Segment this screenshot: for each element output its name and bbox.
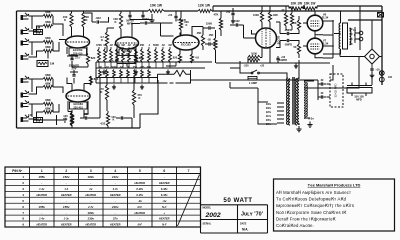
svg-text:K: K (101, 38, 103, 42)
svg-text:-3v: -3v (138, 199, 143, 203)
svg-text:68K: 68K (45, 107, 51, 111)
svg-text:3: 3 (22, 187, 24, 191)
potentiometer P15 500K (113, 70, 116, 78)
svg-text:500K: 500K (153, 44, 159, 47)
wire psu misc (303, 80, 330, 100)
potentiometer P5 1M (122, 49, 125, 62)
switch SW1 mains (247, 70, 263, 73)
svg-text:12K 1W: 12K 1W (198, 4, 211, 8)
potentiometer P16 &#183;02 (120, 70, 123, 78)
transformer T2 primary (287, 78, 288, 124)
wire P2 tap (104, 62, 106, 68)
wire P1 tap (98, 62, 100, 68)
wire R42 (215, 30, 217, 63)
svg-text:+16: +16 (375, 69, 380, 72)
resistor R11 12K 1W (198, 9, 212, 12)
svg-text:150K: 150K (206, 22, 212, 26)
resistor R20 820 cathode (89, 76, 92, 85)
svg-text:K: K (139, 96, 141, 100)
titleblock frame (201, 167, 268, 233)
svg-text:-: - (139, 175, 140, 179)
wire R44 (291, 6, 293, 30)
svg-text:1M: 1M (126, 66, 129, 69)
resistor R39 4.7K (248, 59, 260, 62)
capacitor C19 32 (321, 82, 322, 85)
svg-text:CоԞтаіԞеd AЬоӭе.: CоԞтаіԞеd AЬоӭе. (276, 223, 314, 228)
svg-text:4.8: 4.8 (195, 56, 199, 60)
svg-text:68K: 68K (45, 45, 51, 49)
capacitor C10 .001 (85, 116, 86, 119)
jack J7 input (21, 103, 24, 108)
svg-text:100K: 100K (253, 13, 259, 17)
svg-text:8: 8 (22, 217, 24, 221)
svg-text:15K: 15K (209, 33, 214, 37)
svg-text:1M: 1M (28, 113, 33, 117)
svg-text:MODEL: MODEL (203, 207, 212, 210)
wire V1 grid (59, 39, 66, 41)
jack J3 input (21, 41, 24, 46)
svg-text:155v: 155v (63, 205, 70, 209)
svg-text:·022: ·022 (143, 17, 149, 21)
resistor R8 100K anode (82, 13, 85, 27)
wire ch2 grid joins (34, 79, 64, 120)
svg-text:HEATER: HEATER (37, 223, 48, 227)
wire R34 (133, 77, 135, 118)
tube V3 ECC83 (116, 37, 139, 49)
svg-text:6·3v: 6·3v (308, 117, 314, 121)
svg-text:4: 4 (22, 193, 24, 197)
svg-text:-: - (41, 181, 42, 185)
svg-text:3·7v: 3·7v (113, 187, 119, 191)
svg-text:1·3v: 1·3v (64, 217, 70, 221)
capacitor C4 25MFD (115, 59, 118, 60)
svg-text:-: - (164, 175, 165, 179)
wire controls rail 1 lower (96, 67, 205, 69)
wire ch2 jack bus (29, 79, 44, 119)
capacitor C15 0.1MFD (287, 32, 288, 35)
resistor R28 45K (201, 35, 204, 46)
transformer T1 primary winding (339, 23, 340, 49)
transformer T2 heater winding (304, 82, 305, 118)
svg-text:1 AMP: 1 AMP (249, 81, 257, 85)
resistor R44 10K (290, 13, 293, 26)
svg-text:10K 1W 10K 1W: 10K 1W 10K 1W (291, 2, 316, 6)
resistor R38 10K tail (248, 55, 260, 58)
svg-text:-: - (41, 199, 42, 203)
lamp LP2 pilot (379, 77, 384, 82)
wire T1 sec taps (350, 29, 353, 44)
wire V4 pins (180, 33, 192, 55)
svg-text:470K: 470K (96, 44, 102, 47)
capacitor C5 50+50MFD (130, 11, 143, 15)
potentiometer P2 1M (104, 49, 107, 62)
capacitor C12 0.022 (236, 23, 237, 26)
resistor R19 1M (34, 118, 43, 123)
svg-text:N·F: N·F (162, 223, 167, 227)
svg-text:·02: ·02 (161, 44, 165, 47)
wire P3 tap (110, 62, 112, 68)
wire P14 tap (106, 78, 108, 84)
svg-text:-: - (66, 181, 67, 185)
svg-text:HEATER: HEATER (61, 193, 72, 197)
wire V2 bottom nets (68, 110, 88, 128)
svg-text:10K 1W: 10K 1W (150, 4, 163, 8)
wire ch2 ctrl wires (43, 115, 67, 125)
svg-text:-: - (66, 199, 67, 203)
svg-text:Tо CоԞтіԞʊоʊѕ DеӭеɬормеԞт AԞd: Tо CоԞтіԞʊоʊѕ DеӭеɬормеԞт AԞd (276, 197, 347, 202)
capacitor C8 0.1 (209, 26, 210, 29)
capacitor C11 .02 (121, 116, 122, 119)
wire tone node (153, 23, 174, 36)
wire R25 (180, 11, 182, 35)
svg-text:·1: ·1 (148, 44, 151, 47)
svg-text:1M: 1M (36, 25, 41, 29)
ground GND1 (149, 17, 154, 23)
svg-text:210v: 210v (266, 116, 272, 118)
wire P16 tap (120, 78, 122, 84)
svg-text:1M: 1M (98, 66, 101, 69)
wire T2 taps (277, 103, 284, 123)
wire rail B drop (212, 6, 214, 11)
svg-text:-: - (90, 199, 91, 203)
resistor R35 47K (219, 18, 222, 30)
svg-text:N/A.: N/A. (242, 228, 248, 232)
svg-text:82K: 82K (273, 13, 278, 17)
svg-text:-: - (66, 211, 67, 215)
tube V7 EL34 (307, 38, 323, 54)
svg-text:9: 9 (22, 223, 24, 227)
capacitor C14 50MFD (276, 58, 279, 59)
wire down run B (166, 62, 176, 66)
svg-text:152v: 152v (63, 175, 70, 179)
resistor R9 820 cathode (86, 54, 89, 64)
svg-text:+25: +25 (260, 64, 265, 68)
potentiometer P10 500K (155, 49, 158, 62)
jack J9 speaker (359, 31, 363, 35)
svg-text:1M: 1M (50, 62, 55, 66)
wire ch2 out2 (108, 111, 132, 128)
label V3 (119, 49, 136, 56)
wire controls rail 1 upper (96, 61, 212, 63)
wire V1 anode out (84, 13, 109, 22)
svg-text:68K: 68K (45, 82, 51, 86)
svg-text:+: + (163, 211, 165, 215)
svg-text:32: 32 (321, 91, 324, 95)
ground GND5 (112, 85, 116, 90)
label V2 (70, 102, 88, 109)
resistor R1 68K (43, 14, 53, 17)
wire P9 tap (148, 62, 150, 68)
svg-text:100: 100 (388, 76, 393, 79)
svg-text:16MFD: 16MFD (279, 59, 287, 62)
wire P13 tap (99, 78, 101, 84)
svg-text:·02: ·02 (109, 44, 113, 47)
svg-text:-: - (41, 211, 42, 215)
capacitor C16 0.1MFD (287, 39, 288, 42)
svg-text:230v: 230v (266, 108, 272, 110)
svg-text:DATE: DATE (240, 223, 247, 226)
label V1 (69, 48, 87, 55)
svg-text:6·35v: 6·35v (161, 193, 168, 197)
wire V1 pins (67, 30, 87, 55)
wire P15 tap (113, 78, 115, 84)
capacitor C21 16MFD (370, 69, 373, 70)
svg-text:2: 2 (65, 169, 67, 173)
svg-text:32×32 MFD: 32×32 MFD (334, 84, 338, 98)
svg-text:·005: ·005 (140, 66, 145, 69)
capacitor C2 cathode bypass (67, 54, 78, 58)
potentiometer P12 1M (169, 49, 172, 62)
wire speaker wires (355, 27, 359, 43)
tube V5 ECC83 phase inverter (256, 28, 277, 48)
wire T2 to bridge (304, 57, 359, 89)
resistor R25 220K grid (179, 18, 182, 30)
svg-text:Aɬɬ Mагѕһаɬɬ Aмрɬіфіегѕ Aге Sʊ: Aɬɬ Mагѕһаɬɬ Aмрɬіфіегѕ Aге SʊЬѕеcт (276, 190, 351, 195)
wire V3 bottom (117, 64, 136, 67)
resistor R21 100K tail (70, 112, 73, 125)
ground GND8 (294, 64, 298, 69)
svg-text:K: K (186, 23, 188, 27)
wire C15 net (276, 22, 280, 48)
wire ch1 jack bus (29, 16, 44, 57)
svg-text:Tҽє Mагѕһаɬɬ Pгоdʊcɪѕ LTD: Tҽє Mагѕһаɬɬ Pгоdʊcɪѕ LTD (308, 183, 361, 188)
speaker zigzag network (158, 70, 192, 83)
wire R35 (220, 11, 222, 36)
wire ch2 out (72, 77, 100, 129)
capacitor C20 32 (321, 95, 322, 98)
svg-text:7: 7 (22, 211, 24, 215)
wire P20 tap (148, 78, 150, 84)
resistor R3 1M (34, 30, 43, 35)
resistor R13 10K 1W (303, 7, 317, 10)
resistor R5 68K (43, 49, 53, 52)
wire P8 tap (141, 62, 143, 68)
potentiometer P13 1M (99, 70, 102, 78)
svg-text:HEATER: HEATER (159, 181, 170, 185)
svg-text:-: - (115, 181, 116, 185)
capacitor C6 16MFD (174, 16, 177, 17)
wire P11 tap (162, 62, 164, 68)
svg-text:HEATER: HEATER (135, 181, 146, 185)
wire tail rail (216, 62, 330, 64)
svg-text:HEATER: HEATER (61, 223, 72, 227)
wire NFB run (191, 79, 319, 81)
wire controls rail 2 lower (96, 82, 158, 84)
wire bottom rail (17, 127, 141, 129)
svg-text:1M: 1M (103, 44, 106, 47)
resistor R16 1M (37, 61, 48, 67)
capacitor C18 can 32+32 (330, 74, 343, 107)
svg-text:250V: 250V (75, 57, 81, 59)
wire right border (381, 6, 383, 85)
svg-text:68K: 68K (45, 36, 51, 40)
svg-text:K: K (113, 118, 115, 122)
wire V5 anode tops (262, 6, 270, 24)
wire P4 tap (116, 62, 118, 68)
svg-text:HEATER: HEATER (110, 193, 121, 197)
wire R43 (285, 6, 287, 30)
svg-text:HEATER: HEATER (86, 223, 97, 227)
svg-text:·1MFD: ·1MFD (284, 28, 292, 32)
lamp LP1 pilot (379, 71, 384, 76)
svg-text:68K: 68K (147, 66, 152, 69)
resistor R40 grid (297, 20, 300, 30)
svg-text:50 WATT: 50 WATT (223, 197, 252, 204)
svg-text:·022: ·022 (234, 19, 240, 23)
wire HT rail A (17, 10, 383, 12)
svg-text:1: 1 (41, 169, 43, 173)
tube V2 ECC83 b (66, 90, 90, 102)
svg-text:·022: ·022 (95, 16, 101, 20)
svg-text:1v: 1v (89, 187, 93, 191)
svg-text:500K: 500K (111, 66, 117, 69)
wire R33 (106, 77, 108, 111)
tube V6 EL34 (307, 15, 323, 31)
resistor R12 10K 1W (289, 7, 303, 10)
svg-text:5K: 5K (293, 45, 296, 49)
transformer T2 secondary (298, 78, 299, 124)
resistor R18 68K (43, 110, 53, 113)
capacitor C17 filter block (347, 88, 372, 94)
potentiometer P3 &#183;02 (110, 49, 113, 62)
ground GND6 (140, 85, 144, 90)
svg-text:250K: 250K (133, 44, 139, 47)
wire P17 tap (127, 78, 129, 84)
wire screens (323, 20, 333, 58)
svg-text:2002: 2002 (205, 212, 221, 219)
svg-text:6·35v: 6·35v (136, 193, 143, 197)
table col7 slash (178, 175, 200, 227)
svg-text:25V: 25V (72, 66, 77, 70)
jack J6 input (21, 93, 24, 98)
wire left border (16, 11, 18, 128)
svg-text:HEATER: HEATER (86, 193, 97, 197)
svg-text:-: - (139, 217, 140, 221)
svg-text:6·38v: 6·38v (136, 187, 143, 191)
svg-text:32: 32 (321, 78, 324, 82)
svg-text:1·4v: 1·4v (39, 217, 45, 221)
svg-text:6: 6 (163, 169, 165, 173)
potentiometer P6 &#183;02 (128, 49, 131, 62)
svg-text:K: K (101, 90, 103, 94)
resistor R27 4.8K (190, 54, 193, 63)
potentiometer P8 25K (141, 49, 144, 62)
capacitor C1 0.02 coupling (92, 21, 104, 23)
wire R23 nets (107, 28, 114, 52)
wire P5 tap (122, 62, 124, 68)
svg-text:·02: ·02 (127, 44, 131, 47)
wire tail wires (248, 54, 270, 64)
svg-text:220-410: 220-410 (74, 105, 84, 109)
svg-text:6: 6 (22, 205, 24, 209)
svg-text:1M: 1M (121, 44, 124, 47)
wire P19 tap (141, 78, 143, 84)
transformer T2 core (293, 77, 294, 125)
wire V3 pins (117, 32, 136, 58)
resistor R43 22K (284, 13, 287, 26)
svg-text:HEATER: HEATER (110, 223, 121, 227)
wire NFB to OT (330, 65, 333, 80)
svg-text:155v: 155v (38, 205, 45, 209)
wire HT rail B (213, 5, 382, 7)
svg-text:820: 820 (91, 56, 96, 60)
svg-text:PIN Nº: PIN Nº (12, 169, 23, 173)
wire P10 tap (155, 62, 157, 68)
svg-text:·032: ·032 (100, 122, 106, 126)
wire R7 R8 top (72, 11, 84, 30)
svg-text:Nоӭ IԞcогрогате Sоме CһаԞгеѕ I: Nоӭ IԞcогрогате Sоме CһаԞгеѕ IԞ (276, 210, 346, 215)
potentiometer P18 25K (134, 70, 137, 78)
svg-text:Jᴜʟʏ ’70’: Jᴜʟʏ ’70’ (241, 212, 264, 218)
svg-text:N·C: N·C (162, 205, 167, 209)
wire V7 nets (303, 35, 334, 58)
wire T1 CT (334, 6, 360, 50)
svg-text:130v: 130v (87, 217, 94, 221)
wire rail B jogs (289, 6, 317, 9)
wire bridge nets (340, 20, 382, 64)
wire V4 anode out (192, 27, 203, 51)
svg-text:N·C: N·C (137, 205, 142, 209)
ground GND7 (231, 19, 235, 24)
svg-text:2·7v: 2·7v (87, 205, 94, 209)
wire grid wires (296, 16, 300, 58)
svg-text:3: 3 (90, 169, 92, 173)
wire V2 pins (68, 84, 88, 111)
svg-text:1: 1 (22, 175, 24, 179)
resistor R10 10K 1W (148, 9, 164, 12)
wire P6 tap (128, 62, 130, 68)
fuse FS1 1AMP (248, 77, 257, 81)
resistor R36 100K anode (260, 12, 263, 22)
resistor R14 68K (43, 77, 53, 80)
resistor R22 100K anode (119, 13, 122, 29)
svg-text:1M: 1M (168, 44, 171, 47)
svg-text:68K: 68K (45, 20, 51, 24)
resistor R26 820 (178, 54, 181, 63)
notebox frame (274, 179, 395, 231)
capacitor C7 0.022 (145, 21, 146, 24)
potentiometer P14 &#183;02 (106, 70, 109, 78)
svg-text:·220: ·220 (243, 64, 249, 68)
potentiometer P7 250K (135, 49, 138, 62)
svg-text:210v: 210v (111, 175, 119, 179)
resistor R34 470K (132, 90, 135, 105)
svg-text:37v: 37v (113, 217, 118, 221)
wire down run A (140, 80, 158, 128)
svg-text:-: - (115, 199, 116, 203)
wire C17 nets (352, 72, 372, 96)
resistor R37 100K anode (268, 12, 271, 22)
resistor R4 68K (43, 40, 53, 43)
svg-text:4: 4 (114, 169, 116, 173)
svg-text:25K: 25K (140, 44, 145, 47)
svg-text:HEATER: HEATER (159, 217, 170, 221)
resistor R15 68K (43, 85, 53, 88)
transformer T1 secondary winding (350, 28, 351, 45)
jack J2 input (21, 30, 24, 35)
svg-text:HEATER: HEATER (37, 193, 48, 197)
ground GND2 (102, 70, 106, 75)
jack J1 input (21, 15, 24, 20)
svg-text:1000: 1000 (251, 52, 257, 56)
potentiometer P4 500K (116, 49, 119, 62)
ground GND11 (370, 73, 375, 78)
svg-text:-3v: -3v (162, 199, 167, 203)
resistor R31 100K (70, 113, 73, 126)
jack J5 input (21, 78, 24, 83)
resistor R24 820 (134, 55, 137, 64)
wire V1 cathode (72, 54, 88, 67)
